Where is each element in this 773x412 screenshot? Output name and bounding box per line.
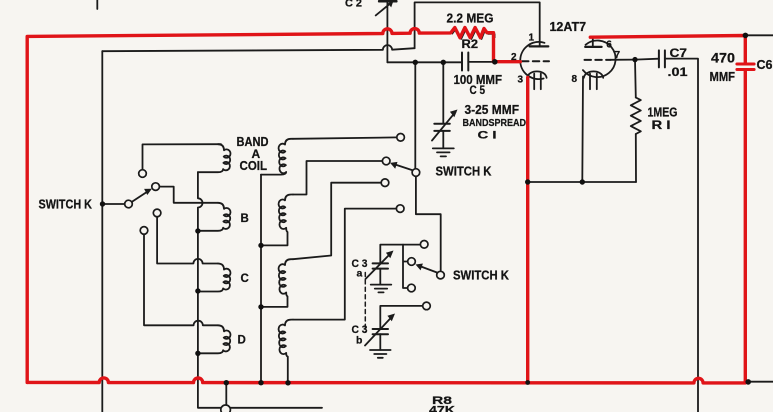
wire grid pin7 to node	[611, 59, 636, 61]
svg-text:C7: C7	[670, 46, 688, 60]
node coil B bottom	[195, 228, 200, 233]
svg-text:SWITCH K: SWITCH K	[39, 197, 93, 212]
arrowhead switch right	[416, 264, 423, 271]
wire red left vertical and top run with hops and resistor R2 zigzag	[27, 28, 520, 383]
arrowhead switch left	[144, 189, 152, 195]
triode U1a grid dashes	[522, 60, 549, 62]
capacitor C3b plates	[373, 329, 388, 334]
capacitor C6 plates red	[737, 64, 754, 70]
wire contact A' to band A coil top	[293, 137, 397, 138]
triode U1a envelope	[520, 42, 544, 79]
coil A right winding	[261, 139, 293, 175]
wire contact B' to coil B right top	[293, 161, 382, 195]
svg-text:2: 2	[511, 52, 517, 63]
triode U1b cathode	[584, 71, 603, 89]
switch arm right	[419, 266, 437, 273]
svg-text:C6: C6	[757, 58, 773, 72]
svg-text:12AT7: 12AT7	[550, 20, 587, 34]
capacitor C5 plates	[462, 53, 468, 71]
triode U1b envelope	[583, 40, 616, 77]
wire C1 to ground	[442, 131, 444, 148]
wire cathode pin8 down	[581, 77, 584, 183]
wire left vertical x=102.3	[101, 51, 103, 412]
arrowheads	[144, 1, 457, 321]
arrow C3a	[366, 253, 392, 279]
contact left B	[152, 183, 160, 191]
coil B right winding	[263, 195, 293, 246]
svg-text:a: a	[357, 268, 363, 280]
svg-text:1: 1	[529, 33, 535, 44]
wire contact tie T2 T3	[403, 245, 408, 288]
contact right T2	[408, 258, 416, 266]
arrowhead switch middle	[390, 162, 397, 169]
contact left C	[153, 209, 161, 217]
wire right stub bottom	[748, 381, 773, 383]
wire C3a to ground	[379, 269, 381, 285]
node cathode pin3	[525, 179, 530, 184]
capacitor C1 plates	[434, 124, 450, 131]
wire middle switch pole from node y=62	[414, 62, 416, 168]
switch arm left	[132, 192, 147, 202]
node C2/C5 row left	[413, 60, 418, 65]
svg-text:3: 3	[518, 75, 524, 86]
svg-text:C 5: C 5	[470, 85, 486, 97]
node grid pin7 / R1 / C7	[632, 57, 637, 62]
contact middle pivot	[412, 169, 420, 177]
wire contact C to coil C top with hop over left bus	[157, 217, 218, 264]
svg-text:R2: R2	[462, 37, 479, 51]
triode U1a plate bar	[530, 45, 549, 47]
contact right pivot	[437, 271, 445, 279]
arrowhead C3a	[386, 251, 394, 259]
wire contact C' to coil C right top	[293, 183, 381, 260]
node rail terminal	[224, 380, 229, 385]
coil D left winding	[198, 325, 231, 353]
triode U1b plate lead to red wire	[592, 37, 594, 47]
wire contact D to coil D top with hop over left bus	[144, 234, 218, 325]
wire right bus x=261	[260, 175, 262, 383]
wire C7 output down	[665, 59, 698, 412]
contact left pivot	[125, 200, 133, 208]
wire red right vertical	[744, 70, 747, 381]
svg-text:C: C	[241, 273, 249, 285]
coil A left winding	[198, 144, 231, 172]
wire left horizontal y~50 with hop over C2 lead	[102, 45, 414, 51]
node right bus C	[258, 304, 263, 309]
wire bandspread feed x=443.3	[442, 62, 444, 123]
arrow C3b	[365, 316, 393, 346]
wire C2 to C5 node row y=62	[387, 61, 462, 63]
svg-text:BANDSPREAD: BANDSPREAD	[463, 118, 527, 129]
wire C3a top to switch contacts	[380, 245, 420, 264]
wire terminal drop below rail	[225, 385, 227, 405]
svg-text:C I: C I	[478, 129, 497, 141]
node coil C bottom	[195, 288, 200, 293]
wire top edge tick	[96, 0, 98, 9]
contact right T1	[420, 241, 428, 249]
svg-text:8: 8	[572, 74, 578, 85]
wire contact B to coil B top	[159, 187, 218, 203]
wire contact D' to coil D right top	[293, 209, 396, 320]
ground C3b	[370, 350, 391, 358]
contact middle A'	[397, 134, 405, 142]
wire red cathode pin3 down	[526, 78, 529, 383]
svg-text:C 2: C 2	[345, 0, 362, 10]
svg-text:6: 6	[606, 40, 612, 51]
contact left D	[140, 227, 148, 235]
coil C left winding	[198, 264, 231, 292]
node left switch feed	[100, 201, 105, 206]
resistor R1 leads	[635, 60, 636, 182]
wire contact A to coil A top	[143, 144, 222, 169]
svg-text:470: 470	[711, 50, 735, 65]
svg-text:7: 7	[615, 50, 621, 61]
capacitor C2 lead down from plate	[386, 2, 388, 63]
wire red bottom rail with hops	[27, 378, 745, 383]
contact middle B'	[382, 157, 390, 165]
triode U1a cathode	[527, 71, 546, 89]
ground C1	[433, 148, 454, 156]
wire red plate pin6 run	[590, 36, 745, 64]
arrow C2	[376, 2, 393, 16]
svg-text:SWITCH K: SWITCH K	[453, 269, 509, 283]
contact left A	[139, 170, 147, 178]
triode U1b plate bar	[585, 46, 601, 48]
arrow C1	[432, 112, 456, 141]
contact right T4	[423, 302, 431, 310]
node rail bottom right	[745, 379, 751, 385]
coil C right winding	[263, 259, 293, 307]
wire middle switch pole to right switch pole	[416, 176, 441, 271]
contact right T3	[408, 284, 416, 292]
wire plate bus: corner x=414.6 up to top rail, right, down to pin1 plate lead	[415, 2, 540, 48]
svg-text:2.2 MEG: 2.2 MEG	[447, 10, 494, 25]
node top right B+	[743, 33, 749, 39]
node cathode pin8	[580, 179, 585, 184]
svg-text:D: D	[238, 335, 246, 347]
capacitor C3a plates	[373, 263, 388, 268]
contact middle D'	[396, 205, 404, 213]
wire left bus x=197.9 with hop over B-top wire	[198, 172, 322, 408]
wire C5 to grid junction	[468, 61, 495, 63]
gang line C3a-C3b dashed	[364, 273, 366, 333]
svg-text:B: B	[241, 213, 249, 225]
open contact circles	[125, 134, 445, 412]
svg-text:MMF: MMF	[710, 70, 736, 84]
node rail cathode	[525, 380, 530, 385]
terminal bottom circle	[221, 405, 231, 412]
arrowhead C3b	[387, 314, 395, 322]
wire right stub top	[745, 34, 773, 36]
wire node to C7	[635, 58, 659, 61]
svg-text:.01: .01	[668, 65, 688, 79]
contact middle C'	[381, 179, 389, 187]
wire cathode bus y=182	[528, 181, 636, 183]
svg-text:SWITCH K: SWITCH K	[436, 164, 493, 179]
switch arm middle	[394, 164, 413, 170]
svg-text:R I: R I	[652, 118, 671, 132]
svg-text:47K: 47K	[429, 405, 455, 412]
capacitor C7 plates	[659, 50, 665, 67]
svg-text:3-25 MMF: 3-25 MMF	[465, 102, 520, 117]
node rail coil D right	[285, 380, 290, 385]
capacitor C2 plate bar	[379, 0, 396, 3]
node rail right bus	[258, 380, 263, 385]
ground C3a	[371, 285, 392, 293]
resistor R1 zigzag	[631, 98, 641, 135]
black zigzag under R2	[452, 29, 495, 39]
node grid pin2	[492, 59, 498, 65]
arrowhead C2	[388, 1, 394, 8]
wire C3b top to contact T4	[380, 306, 422, 329]
coil D right winding	[279, 320, 293, 383]
arrowhead C1	[450, 110, 458, 118]
triode U1b grid dashes	[585, 59, 611, 61]
wire C3b to ground	[379, 334, 381, 350]
node right bus B	[258, 243, 263, 248]
node coil D bottom	[195, 351, 200, 356]
node C5 row right	[441, 60, 446, 65]
wire left switch feed	[102, 203, 124, 205]
svg-text:COIL: COIL	[240, 159, 268, 173]
svg-text:b: b	[356, 335, 362, 347]
coil B left winding	[198, 203, 231, 231]
